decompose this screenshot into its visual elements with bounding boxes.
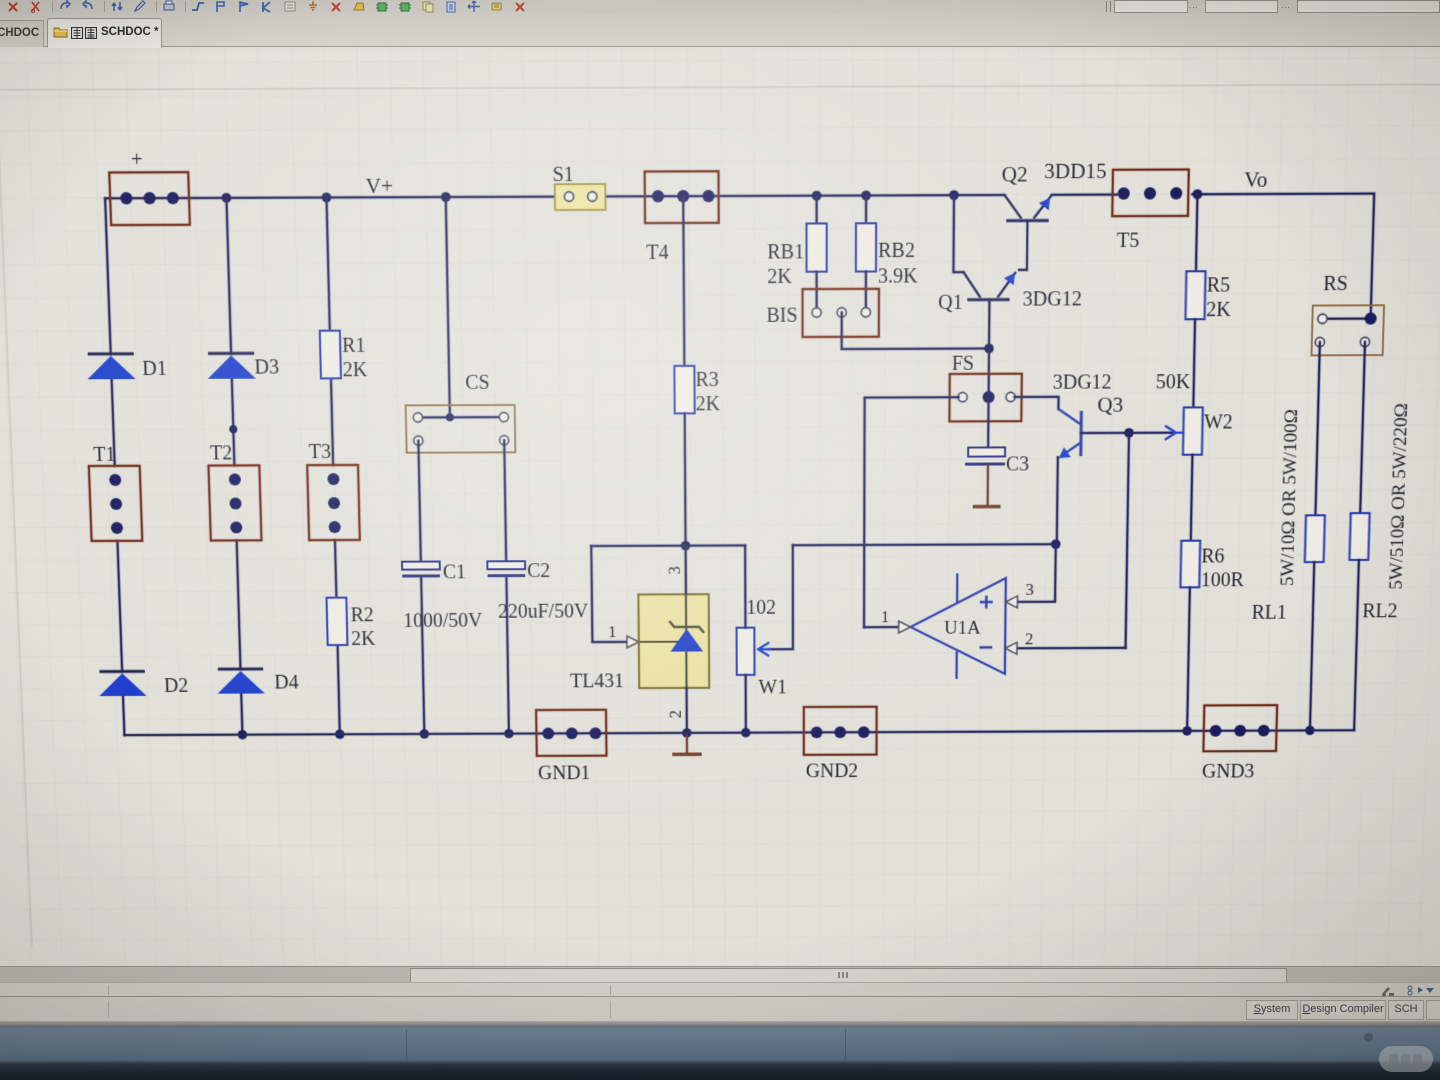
node: TL431 cathode junction [681,541,691,551]
TL431 cathode lead through body [684,546,687,595]
junction bottom rail at W1 [741,728,750,737]
junction Q3 base node [1124,428,1134,438]
svg-text:BIS: BIS [766,305,797,327]
transistor Q3 (3DG12) [1058,409,1082,456]
svg-text:100R: 100R [1201,570,1245,591]
wire Q3 base node down to op-amp pin 2 [1126,433,1129,648]
svg-text:RL1: RL1 [1251,602,1287,623]
TL431 pin 1 arrowhead [627,636,639,648]
top toolbar [0,0,1440,15]
wire RL1 to bottom rail [1310,562,1314,730]
svg-text:R5: R5 [1207,275,1231,297]
junction V+ at Q1/Q2 [949,190,959,200]
wire: C1 column [418,441,420,562]
svg-text:R1: R1 [342,335,366,357]
connector "+" input box [109,172,190,225]
connector T4 [645,171,719,223]
connector T1 [89,466,142,541]
horizontal scrollbar [0,966,1440,983]
resistor R2 [327,598,348,645]
svg-text:Q3: Q3 [1097,393,1123,416]
wire FS left pin to op-amp output column [864,397,959,627]
wire RS to RL2 [1360,342,1365,513]
svg-text:3: 3 [664,566,683,575]
wire RB1 top [815,196,818,224]
wire: Vo rail right of T5 with corner down to RS [1190,194,1374,320]
resistor RB2 [856,223,876,271]
connector T3 [307,465,360,540]
svg-text:R3: R3 [695,369,718,391]
wire R5 to W2 [1193,319,1195,407]
junction on V+ at D3 column [221,193,231,203]
svg-text:1: 1 [608,622,617,641]
wire: R3 to TL431 cathode node [683,413,686,545]
svg-text:2K: 2K [767,266,792,288]
connector BIS [803,289,879,337]
wire RB2 bottom to BIS [865,271,868,312]
svg-text:1: 1 [881,607,889,626]
transistor Q2 (3DD15) [1004,195,1052,270]
connector CS (tan box) [406,405,516,453]
svg-text:D3: D3 [254,357,279,379]
svg-text:RB2: RB2 [878,240,915,262]
wire Q3 emitter down [1057,457,1058,544]
wire RS to RL1 [1315,342,1319,515]
op-amp pin 2 wire [1017,647,1126,650]
wire R6 to bottom rail [1187,587,1190,731]
wire: V+ top rail left section [105,197,555,199]
resistor R3 [674,366,694,414]
svg-text:3.9K: 3.9K [878,266,918,288]
junction bottom rail at RL1 [1305,726,1315,735]
switch S1 (yellow) [555,184,606,210]
svg-text:D4: D4 [274,672,299,693]
svg-text:3DG12: 3DG12 [1053,372,1112,394]
connector GND2 [804,707,877,755]
svg-text:Q2: Q2 [1002,163,1028,187]
svg-text:RS: RS [1323,273,1348,295]
svg-text:U1A: U1A [944,617,981,638]
capacitor C1 [402,562,440,570]
diode D2 [98,671,146,696]
connector FS [949,374,1021,422]
junction on V+ at CS column [441,192,451,202]
svg-text:RL2: RL2 [1362,601,1398,622]
wire: junction down to Q1 collector [953,195,964,272]
svg-text:3DG12: 3DG12 [1022,289,1081,311]
capacitor C2 [487,561,525,569]
op-amp pin 1 output wire [864,626,898,629]
svg-text:+: + [131,149,143,171]
junction op-amp + node [1051,539,1061,549]
wire RB2 top [865,195,868,223]
svg-text:2: 2 [666,710,685,718]
junction inside CS [446,413,454,421]
junction bottom rail at TL431 [682,728,692,737]
capacitor C3 (polarized) [968,447,1005,456]
status bar [0,996,1440,1022]
wire: W1 bottom [744,675,747,733]
junction bottom rail at C1 [420,729,430,738]
wire: C2 column [504,440,506,561]
junction bottom rail at D4 column [238,730,248,739]
thin strip [0,982,1440,997]
wire: D1 column [105,198,111,354]
TL431 U body (yellow) [638,594,709,688]
wire Q1 base down to FS node and FS connector [987,300,990,397]
svg-text:5W/10Ω OR 5W/100Ω: 5W/10Ω OR 5W/100Ω [1277,409,1302,586]
svg-text:2K: 2K [343,360,368,382]
connector RS (tan box) [1312,305,1385,355]
wire: CS feed [446,197,450,417]
resistor R6 [1180,541,1200,588]
wire Vo to R5 [1196,194,1197,271]
junction on V+ at RB1 [812,191,822,201]
svg-text:C3: C3 [1006,454,1029,475]
resistor R1 [320,331,341,379]
junction bottom rail at C2 [504,729,514,738]
op-amp pin 3 wire [1017,544,1055,602]
svg-text:2K: 2K [1206,299,1231,321]
svg-text:GND3: GND3 [1202,761,1255,782]
svg-text:Vo: Vo [1244,168,1268,192]
bottom bezel band [0,1021,1440,1080]
svg-text:T1: T1 [93,444,116,465]
svg-text:1000/50V: 1000/50V [403,611,483,632]
wire inside CS between top pins [418,416,504,419]
resistor RL1 [1305,515,1325,562]
connector GND1 [536,710,606,756]
diode D4 [217,669,265,694]
TL431 internal ref line [639,641,686,643]
svg-text:T4: T4 [646,242,669,264]
svg-text:W2: W2 [1204,412,1233,433]
diode D3 [207,353,256,379]
wire RB1 bottom to BIS [815,272,818,313]
svg-text:C2: C2 [527,561,550,582]
wire: D3 column [226,198,231,354]
pin junction dot between D3 and T2 [229,425,237,433]
resistor RB1 [807,223,827,271]
svg-text:V+: V+ [365,174,393,198]
svg-text:R2: R2 [350,605,374,626]
svg-text:2K: 2K [696,394,721,416]
svg-text:102: 102 [746,598,776,619]
wire inside RS top pins [1322,317,1370,320]
ground under C3 [986,465,989,506]
svg-text:3: 3 [1025,580,1034,599]
svg-text:50K: 50K [1156,372,1191,394]
wire: V+ top rail middle section (S1 to Q2 collector) [605,195,1004,196]
wire Q3 base to W2 junction [1081,432,1129,435]
wire: W1 top [744,545,747,627]
svg-text:GND2: GND2 [806,761,858,782]
svg-text:T2: T2 [210,443,233,464]
junction bottom rail at R6 [1182,726,1192,735]
svg-text:2: 2 [1025,629,1034,648]
svg-text:D2: D2 [164,676,189,697]
svg-text:GND1: GND1 [538,763,591,784]
svg-text:FS: FS [952,353,974,375]
op-amp U1A [910,573,1006,679]
connector T2 [208,465,261,540]
svg-text:C1: C1 [443,562,467,583]
wire BIS center to FS node [842,312,990,349]
svg-text:Q1: Q1 [938,292,963,314]
wire: W1 wiper to op-amp node [793,544,1056,545]
svg-text:S1: S1 [552,164,574,186]
svg-text:W1: W1 [758,677,787,698]
resistor RL2 [1349,513,1369,560]
W1 wiper arrow [767,545,793,649]
wire W2 wiper [1129,431,1172,434]
junction on V+ at R1 column [322,193,332,203]
junction bottom rail at R2 column [335,730,345,739]
wire FS right pin to Q3 collector [1014,397,1058,409]
TL431 internal zener bar [669,621,704,633]
bottom ground rail [124,730,1354,735]
TL431 internal triangle [670,629,703,652]
wire: R1 column [326,198,329,331]
wire FS center to C3 [987,397,990,447]
wire: cathode node horizontal [591,544,745,547]
wire: T4 center down to R3 [683,196,684,366]
node FS junction [984,344,994,354]
wire: feedback to TL431 ref pin 1 [591,546,626,642]
svg-text:220uF/50V: 220uF/50V [498,601,588,622]
transistor Q1 (3DG12) [963,272,1016,300]
svg-text:T3: T3 [309,442,332,463]
connector GND3 [1203,705,1277,751]
junction on Vo at R5 [1192,189,1202,199]
svg-text:2K: 2K [351,629,376,650]
wire W2 to R6 [1191,455,1193,541]
svg-text:R6: R6 [1201,546,1225,567]
ground bar under TL431 pin 2 [686,733,689,753]
potentiometer W2 [1183,407,1203,454]
svg-text:CS: CS [465,372,490,394]
connector T5 [1112,169,1189,216]
tab bar [0,14,1440,47]
resistor R5 [1185,271,1205,319]
svg-text:TL431: TL431 [570,671,624,692]
svg-text:3DD15: 3DD15 [1044,159,1107,183]
diode D1 [87,354,136,380]
svg-text:RB1: RB1 [767,242,804,264]
potentiometer W1 [737,628,755,675]
schematic sheet border [0,84,1440,946]
wire: Vo rail from Q2 emitter to T5 [1052,193,1117,196]
svg-text:D1: D1 [142,358,167,380]
wire RL2 to bottom rail [1354,560,1359,730]
svg-text:T5: T5 [1117,230,1140,252]
junction on V+ at RB2 [861,191,871,201]
